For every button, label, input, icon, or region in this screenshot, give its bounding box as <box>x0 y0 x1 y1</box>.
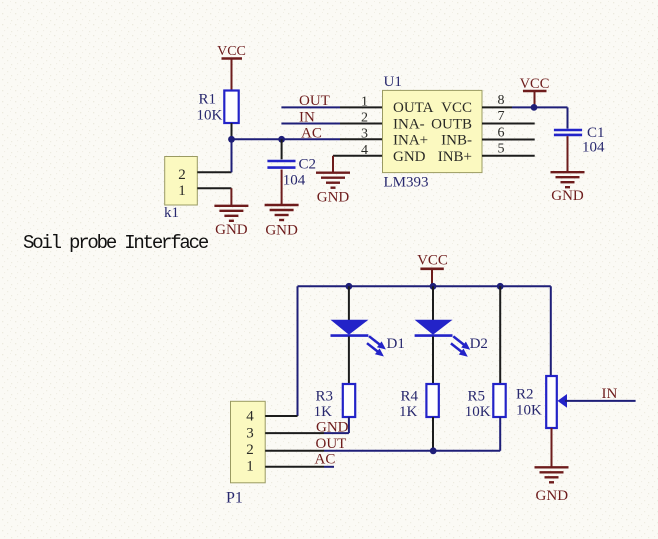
LED D2 <box>415 320 488 357</box>
svg-text:4: 4 <box>246 409 254 425</box>
pin stub U1 pin7 <box>482 123 535 125</box>
svg-text:GND: GND <box>551 188 584 204</box>
wire P1 pin1 AC stub <box>265 466 334 468</box>
wire rail to D1 <box>348 286 350 320</box>
power VCC (right) <box>520 76 550 107</box>
wire U1 pin8 to VCC/C1 <box>482 106 568 108</box>
svg-text:INA+: INA+ <box>393 133 428 149</box>
svg-text:D1: D1 <box>387 336 405 352</box>
svg-text:GND: GND <box>265 223 298 239</box>
wire VCC to R1 <box>231 74 233 91</box>
wire R1 to AC net <box>231 123 233 139</box>
svg-text:3: 3 <box>361 127 368 142</box>
svg-text:VCC: VCC <box>417 253 448 269</box>
svg-text:2: 2 <box>246 442 254 458</box>
svg-text:GND: GND <box>393 149 426 165</box>
wire OUT to U1 pin1 <box>281 106 382 108</box>
wire K1 pin1 to ground <box>197 188 231 206</box>
wire R2 wiper to IN <box>565 400 636 402</box>
potentiometer R2 <box>516 376 567 428</box>
svg-text:GND: GND <box>536 488 569 504</box>
svg-text:5: 5 <box>498 141 505 156</box>
ground (K1 pin1) <box>214 206 248 238</box>
wire R5 to OUT net <box>499 417 501 451</box>
svg-text:INB+: INB+ <box>438 149 472 165</box>
svg-text:6: 6 <box>498 125 505 140</box>
svg-text:C2: C2 <box>299 157 317 173</box>
LED D1 <box>331 320 405 357</box>
node junction rail/D1 <box>346 283 353 290</box>
svg-text:INB-: INB- <box>441 133 472 149</box>
wire R3 to GND net <box>348 417 350 433</box>
connector K1 <box>164 157 197 222</box>
wire U1 pin4 to ground <box>333 156 383 173</box>
node junction VCC/pin8 <box>531 104 538 111</box>
wire IN to U1 pin2 <box>281 123 382 125</box>
wire rail to P1 pin4 <box>297 286 299 416</box>
svg-text:VCC: VCC <box>520 76 550 92</box>
svg-text:2: 2 <box>178 167 186 183</box>
svg-text:2: 2 <box>361 111 368 126</box>
svg-text:P1: P1 <box>226 490 243 507</box>
wire D2 to R4 <box>432 337 434 385</box>
pin stub U1 pin6 <box>482 139 535 141</box>
ground (C2) <box>265 205 299 239</box>
resistor R4 <box>399 384 439 420</box>
wire P1 pin3 to R3 <box>265 432 349 434</box>
node junction C2/AC <box>278 136 285 143</box>
wire rail to R5 <box>499 286 501 384</box>
svg-text:R3: R3 <box>316 388 334 404</box>
svg-text:Soil probe Interface: Soil probe Interface <box>23 232 209 254</box>
svg-text:U1: U1 <box>384 74 402 90</box>
ground (R2) <box>535 467 569 504</box>
svg-text:10K: 10K <box>197 108 223 124</box>
svg-text:LM393: LM393 <box>384 175 429 191</box>
wire AC to U1 pin3 <box>232 138 383 140</box>
wire pin8 to C1 <box>567 107 569 128</box>
svg-text:R2: R2 <box>516 387 534 403</box>
wire rail to D2 <box>432 286 434 320</box>
ground (U1 pin4) <box>316 173 350 206</box>
svg-text:1K: 1K <box>314 404 333 420</box>
svg-text:10K: 10K <box>465 404 491 420</box>
resistor R5 <box>465 384 506 420</box>
node junction R4/OUT <box>430 447 437 454</box>
wire P1 pin2 to R4/R5 <box>265 450 500 452</box>
ground (C1) <box>551 172 585 204</box>
wire R4 to OUT net <box>432 417 434 451</box>
svg-text:10K: 10K <box>516 403 542 419</box>
svg-text:k1: k1 <box>164 205 179 221</box>
svg-text:INA-: INA- <box>393 117 425 133</box>
power VCC (bottom rail) <box>417 253 448 287</box>
resistor R1 <box>197 91 239 124</box>
wire AC node to C2 <box>281 139 283 159</box>
svg-text:7: 7 <box>498 109 505 124</box>
svg-text:OUTA: OUTA <box>393 100 434 116</box>
svg-text:8: 8 <box>498 93 505 108</box>
svg-text:1K: 1K <box>399 404 418 420</box>
svg-text:OUTB: OUTB <box>431 117 472 133</box>
node junction rail/R5 <box>497 283 504 290</box>
svg-text:1: 1 <box>178 183 186 199</box>
wire R2 to ground <box>551 428 553 467</box>
svg-text:4: 4 <box>361 143 368 158</box>
svg-text:D2: D2 <box>470 336 488 352</box>
pin stub U1 pin5 <box>482 155 535 157</box>
wire C1 to ground <box>567 136 569 172</box>
svg-text:VCC: VCC <box>441 100 472 116</box>
svg-text:104: 104 <box>283 173 306 189</box>
power VCC (top of R1) <box>217 44 246 74</box>
svg-text:GND: GND <box>215 222 248 238</box>
svg-text:1: 1 <box>361 94 368 109</box>
wire VCC rail <box>298 285 551 287</box>
capacitor C1 <box>554 125 605 156</box>
svg-text:IN: IN <box>602 386 618 402</box>
wire D1 to R3 <box>348 337 350 385</box>
node junction rail/VCC/D2 <box>430 283 437 290</box>
resistor R3 <box>314 384 356 420</box>
svg-text:GND: GND <box>317 190 350 206</box>
node junction R1/K1/AC <box>228 136 235 143</box>
wire C2 to ground <box>281 170 283 206</box>
svg-text:R1: R1 <box>199 92 217 108</box>
svg-text:104: 104 <box>582 140 605 156</box>
wire K1 pin2 to AC node <box>197 139 231 172</box>
connector P1 <box>226 401 265 506</box>
op-amp U1 LM393 <box>383 74 483 191</box>
svg-text:R4: R4 <box>401 388 419 404</box>
wire rail to R2 <box>550 286 552 376</box>
svg-text:VCC: VCC <box>217 44 246 59</box>
wire P1 pin4 to rail <box>265 415 297 417</box>
svg-text:R5: R5 <box>468 388 486 404</box>
svg-text:AC: AC <box>315 452 336 468</box>
capacitor C2 <box>267 157 316 189</box>
svg-text:1: 1 <box>246 458 254 474</box>
svg-text:3: 3 <box>246 426 254 442</box>
